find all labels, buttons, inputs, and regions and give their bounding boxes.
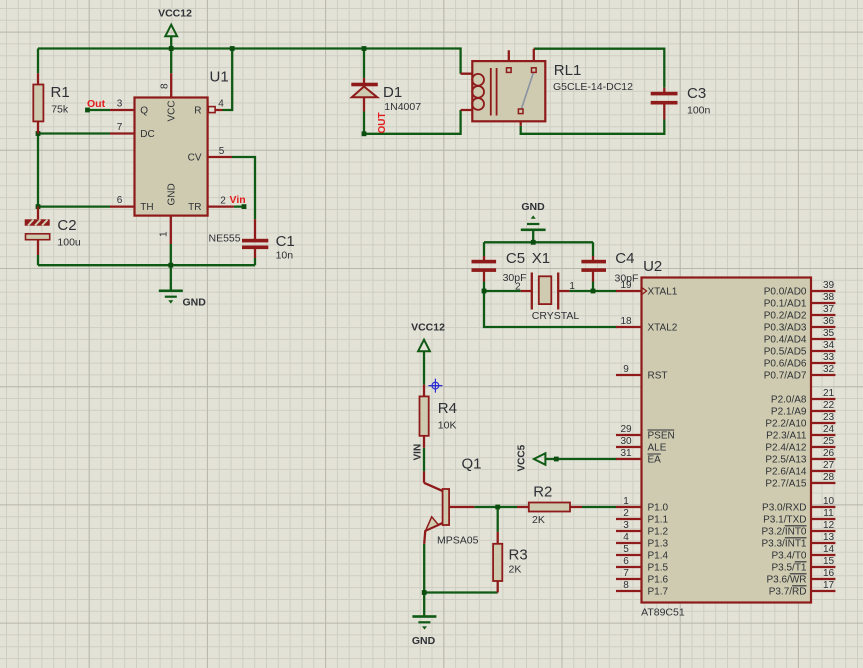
svg-text:13: 13 <box>823 532 835 543</box>
svg-text:1: 1 <box>569 281 575 292</box>
svg-text:DC: DC <box>140 129 154 140</box>
svg-text:38: 38 <box>823 292 835 303</box>
svg-text:AT89C51: AT89C51 <box>641 607 685 619</box>
svg-text:P1.3: P1.3 <box>648 539 669 550</box>
svg-text:R: R <box>194 106 201 117</box>
svg-text:P0.5/AD5: P0.5/AD5 <box>764 347 807 358</box>
svg-text:P3.0/RXD: P3.0/RXD <box>762 503 806 514</box>
svg-text:2: 2 <box>220 195 226 206</box>
svg-text:XTAL1: XTAL1 <box>648 287 678 298</box>
svg-text:27: 27 <box>823 460 835 471</box>
svg-text:14: 14 <box>823 544 835 555</box>
svg-text:9: 9 <box>623 364 629 375</box>
svg-text:15: 15 <box>823 556 835 567</box>
svg-text:C4: C4 <box>615 250 634 267</box>
svg-text:26: 26 <box>823 448 835 459</box>
svg-text:3: 3 <box>117 99 123 110</box>
svg-text:P2.3/A11: P2.3/A11 <box>766 431 807 442</box>
svg-text:18: 18 <box>620 316 632 327</box>
svg-text:R2: R2 <box>533 484 552 501</box>
svg-text:VCC: VCC <box>167 100 178 121</box>
svg-text:1N4007: 1N4007 <box>384 101 421 113</box>
svg-text:11: 11 <box>823 508 834 519</box>
svg-text:32: 32 <box>823 364 835 375</box>
svg-text:TH: TH <box>140 202 153 213</box>
svg-text:10K: 10K <box>438 420 457 432</box>
svg-text:VCC12: VCC12 <box>411 322 445 334</box>
svg-text:U2: U2 <box>643 258 662 275</box>
svg-text:Vin: Vin <box>230 194 246 206</box>
svg-text:P2.7/A15: P2.7/A15 <box>765 479 807 490</box>
svg-text:1: 1 <box>159 231 170 237</box>
svg-text:X1: X1 <box>532 250 550 267</box>
svg-text:P1.7: P1.7 <box>648 587 669 598</box>
svg-text:100u: 100u <box>57 237 81 249</box>
svg-text:31: 31 <box>620 448 632 459</box>
svg-text:33: 33 <box>823 352 835 363</box>
svg-text:7: 7 <box>117 122 123 133</box>
svg-text:P0.0/AD0: P0.0/AD0 <box>764 287 807 298</box>
svg-text:RST: RST <box>648 371 668 382</box>
svg-text:21: 21 <box>823 388 835 399</box>
svg-text:EA: EA <box>648 455 662 466</box>
svg-text:30: 30 <box>620 436 632 447</box>
svg-text:P2.1/A9: P2.1/A9 <box>771 407 807 418</box>
svg-text:3: 3 <box>623 520 629 531</box>
svg-text:P2.2/A10: P2.2/A10 <box>765 419 807 430</box>
svg-text:19: 19 <box>620 280 632 291</box>
svg-text:2: 2 <box>515 282 521 293</box>
svg-text:RL1: RL1 <box>554 62 582 79</box>
svg-text:5: 5 <box>219 146 225 157</box>
svg-text:Out: Out <box>87 98 106 110</box>
svg-text:17: 17 <box>823 580 835 591</box>
svg-text:39: 39 <box>823 280 835 291</box>
svg-text:P1.4: P1.4 <box>648 551 669 562</box>
svg-text:P2.4/A12: P2.4/A12 <box>765 443 807 454</box>
svg-text:10: 10 <box>823 496 835 507</box>
svg-text:8: 8 <box>160 83 171 89</box>
svg-text:C1: C1 <box>276 233 295 250</box>
svg-text:D1: D1 <box>383 84 402 101</box>
svg-text:P3.7/RD: P3.7/RD <box>769 587 807 598</box>
svg-text:2: 2 <box>623 508 629 519</box>
svg-text:P1.6: P1.6 <box>648 575 669 586</box>
svg-text:P0.7/AD7: P0.7/AD7 <box>764 371 807 382</box>
svg-text:VCC12: VCC12 <box>158 8 192 20</box>
svg-text:P3.6/WR: P3.6/WR <box>766 575 806 586</box>
svg-text:GND: GND <box>167 183 178 205</box>
svg-text:2K: 2K <box>532 514 545 526</box>
svg-text:P1.5: P1.5 <box>648 563 669 574</box>
svg-text:CRYSTAL: CRYSTAL <box>532 310 580 322</box>
svg-text:34: 34 <box>823 340 835 351</box>
svg-text:16: 16 <box>823 568 835 579</box>
svg-text:P1.0: P1.0 <box>648 503 669 514</box>
svg-text:12: 12 <box>823 520 835 531</box>
svg-text:7: 7 <box>623 568 629 579</box>
svg-text:VIN: VIN <box>413 444 424 461</box>
svg-text:C5: C5 <box>506 250 525 267</box>
svg-text:23: 23 <box>823 412 835 423</box>
svg-text:PSEN: PSEN <box>648 431 675 442</box>
svg-text:ALE: ALE <box>648 443 667 454</box>
svg-text:1: 1 <box>623 496 629 507</box>
svg-text:VCC5: VCC5 <box>517 444 528 471</box>
svg-text:P0.4/AD4: P0.4/AD4 <box>764 335 807 346</box>
svg-text:P2.0/A8: P2.0/A8 <box>771 395 807 406</box>
svg-text:2K: 2K <box>509 564 522 576</box>
svg-text:P0.2/AD2: P0.2/AD2 <box>764 311 807 322</box>
svg-text:XTAL2: XTAL2 <box>648 323 678 334</box>
svg-text:R3: R3 <box>509 547 528 564</box>
svg-text:P3.1/TXD: P3.1/TXD <box>763 515 806 526</box>
svg-text:36: 36 <box>823 316 835 327</box>
svg-text:75k: 75k <box>51 104 69 116</box>
svg-text:R1: R1 <box>51 84 70 101</box>
svg-text:GND: GND <box>521 201 545 213</box>
svg-text:GND: GND <box>183 297 207 309</box>
svg-text:C3: C3 <box>687 85 706 102</box>
svg-text:P0.6/AD6: P0.6/AD6 <box>764 359 807 370</box>
svg-text:P3.4/T0: P3.4/T0 <box>771 551 806 562</box>
svg-text:4: 4 <box>218 99 224 110</box>
svg-text:Q: Q <box>140 106 148 117</box>
svg-text:8: 8 <box>623 580 629 591</box>
svg-text:U1: U1 <box>210 69 229 86</box>
svg-text:10n: 10n <box>276 250 294 262</box>
svg-text:4: 4 <box>623 532 629 543</box>
svg-text:MPSA05: MPSA05 <box>437 535 479 547</box>
svg-text:R4: R4 <box>438 400 457 417</box>
svg-text:6: 6 <box>623 556 629 567</box>
svg-text:OUT: OUT <box>377 112 388 133</box>
svg-text:5: 5 <box>623 544 629 555</box>
svg-text:P1.1: P1.1 <box>648 515 669 526</box>
svg-text:28: 28 <box>823 472 835 483</box>
svg-text:TR: TR <box>188 202 201 213</box>
svg-text:P3.3/INT1: P3.3/INT1 <box>761 539 806 550</box>
svg-text:P2.5/A13: P2.5/A13 <box>765 455 807 466</box>
svg-text:P0.3/AD3: P0.3/AD3 <box>764 323 807 334</box>
svg-text:P3.2/INT0: P3.2/INT0 <box>761 527 806 538</box>
svg-text:Q1: Q1 <box>462 456 482 473</box>
svg-text:NE555: NE555 <box>209 233 241 245</box>
svg-text:C2: C2 <box>57 217 76 234</box>
svg-text:P3.5/T1: P3.5/T1 <box>771 563 806 574</box>
svg-text:P2.6/A14: P2.6/A14 <box>765 467 807 478</box>
svg-text:29: 29 <box>620 424 632 435</box>
svg-text:37: 37 <box>823 304 835 315</box>
svg-text:100n: 100n <box>687 105 711 117</box>
svg-text:35: 35 <box>823 328 835 339</box>
svg-text:25: 25 <box>823 436 835 447</box>
svg-text:GND: GND <box>412 635 436 647</box>
svg-text:22: 22 <box>823 400 835 411</box>
svg-text:24: 24 <box>823 424 835 435</box>
svg-text:CV: CV <box>188 153 202 164</box>
svg-text:P1.2: P1.2 <box>648 527 669 538</box>
svg-text:G5CLE-14-DC12: G5CLE-14-DC12 <box>553 81 633 93</box>
svg-text:6: 6 <box>117 195 123 206</box>
svg-text:P0.1/AD1: P0.1/AD1 <box>764 299 807 310</box>
